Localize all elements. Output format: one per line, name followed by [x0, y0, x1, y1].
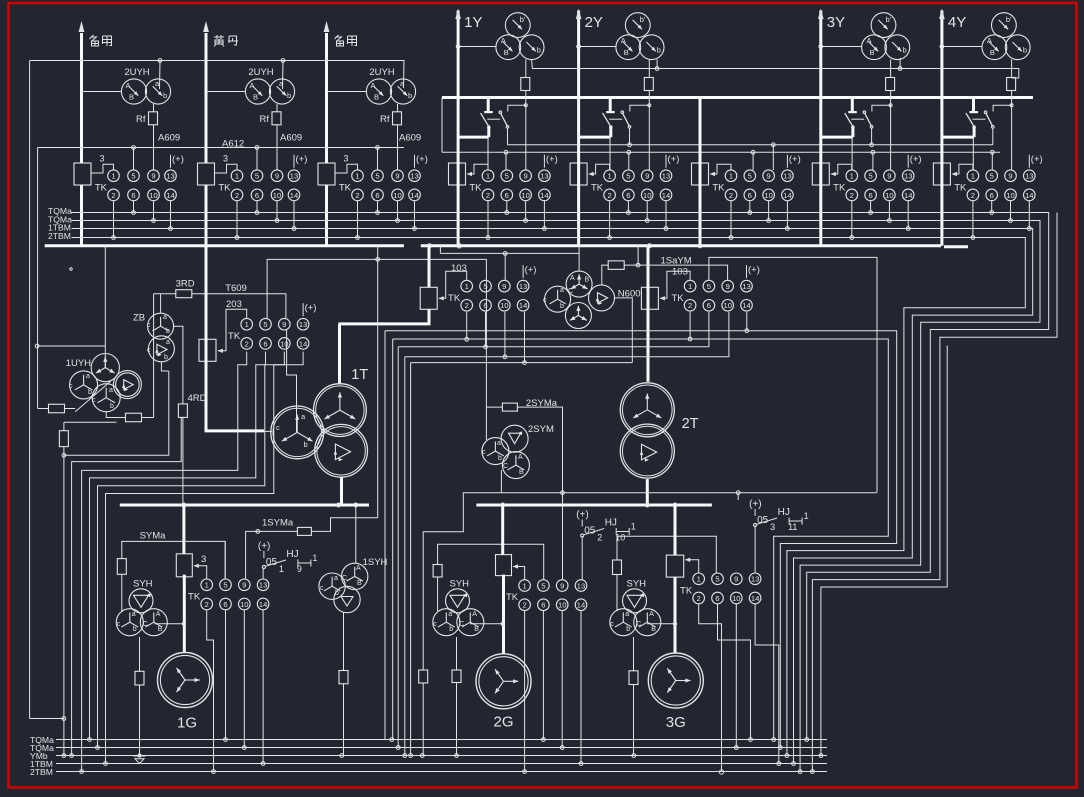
- thick wire y=245.8 left segment: [45, 244, 404, 247]
- thick wire stub: [944, 245, 968, 248]
- svg-text:A: A: [156, 611, 161, 618]
- svg-text:9: 9: [151, 172, 155, 181]
- svg-text:13: 13: [577, 581, 585, 590]
- svg-text:b': b': [1006, 15, 1012, 24]
- incoming feeder line at x=206: [205, 33, 208, 246]
- svg-text:14: 14: [1025, 191, 1033, 200]
- voltage transformer cluster N600: [578, 246, 580, 271]
- bus riser 4Y: [940, 11, 943, 138]
- wire N600 to y=362.6: [615, 298, 633, 363]
- wire ZB bottom to staircase line1: [161, 362, 168, 371]
- svg-text:2Y: 2Y: [585, 14, 603, 31]
- junction dot: [457, 244, 461, 248]
- terminal block TB3: [318, 163, 335, 185]
- wire riser to 2T (thick): [647, 246, 650, 382]
- svg-text:203: 203: [226, 299, 242, 310]
- wire SYH to 1G riser: [155, 623, 184, 625]
- svg-text:b': b': [886, 15, 892, 24]
- fuse 4RD: [178, 404, 187, 418]
- svg-text:14: 14: [259, 600, 267, 609]
- svg-text:9: 9: [560, 581, 564, 590]
- svg-text:b': b': [520, 15, 526, 24]
- svg-text:2: 2: [235, 191, 239, 200]
- svg-text:10: 10: [521, 191, 529, 200]
- svg-text:TK: TK: [506, 592, 519, 603]
- svg-text:10: 10: [280, 339, 288, 348]
- svg-text:2UYH: 2UYH: [248, 67, 273, 78]
- terminal block TB6: [692, 163, 709, 185]
- wire 2TBM (upper) with right return loop: [72, 238, 1026, 756]
- wire 4Y to PT: [942, 46, 982, 48]
- svg-text:14: 14: [410, 191, 418, 200]
- svg-text:3: 3: [201, 554, 206, 565]
- wire c13 riser 1G: [262, 568, 264, 580]
- svg-text:a: a: [448, 611, 452, 618]
- svg-text:3: 3: [770, 522, 775, 532]
- svg-text:1: 1: [111, 172, 115, 181]
- svg-text:2: 2: [205, 600, 209, 609]
- wire vertical x=37.6: [37, 148, 39, 347]
- wire staircase line5: [98, 352, 285, 748]
- svg-text:1G: 1G: [177, 715, 197, 732]
- svg-text:13: 13: [540, 172, 548, 181]
- incoming feeder line at x=326.5: [325, 33, 328, 246]
- stubs TB6 row2 to TQM nets: [730, 201, 732, 238]
- svg-text:5: 5: [541, 581, 545, 590]
- label 备用: [90, 35, 99, 46]
- svg-text:2SYM: 2SYM: [528, 424, 554, 435]
- wire vertical x=440.4: [439, 246, 441, 254]
- voltage transformer PT on 2Y: [625, 13, 650, 38]
- svg-text:6: 6: [255, 191, 259, 200]
- fuse on 1UYH left neutral: [37, 346, 39, 409]
- svg-text:2: 2: [697, 594, 701, 603]
- transformer ZB delta circle: [148, 336, 174, 362]
- svg-text:5: 5: [255, 172, 259, 181]
- svg-text:1: 1: [205, 581, 209, 590]
- svg-text:13: 13: [290, 172, 298, 181]
- svg-text:9: 9: [242, 581, 246, 590]
- fuse on 1SYMa: [297, 527, 311, 535]
- wire 3Y to PT: [821, 46, 862, 48]
- svg-text:2T: 2T: [682, 416, 699, 432]
- wire y=144.8 breaker outputs: [508, 144, 993, 146]
- svg-text:c: c: [276, 423, 280, 432]
- svg-text:1: 1: [850, 172, 854, 181]
- jog wire with 203 label on T609: [218, 309, 247, 351]
- wire outer right return loop: [821, 346, 947, 756]
- voltage transformer 2UYH at feeder x=326.5: [366, 79, 391, 104]
- wire y=152.3 right section: [442, 151, 1000, 153]
- wire 2T to bus (thick): [646, 479, 649, 505]
- terminal block 1G: [176, 554, 192, 577]
- svg-text:2: 2: [688, 301, 692, 310]
- svg-text:(+): (+): [296, 154, 308, 165]
- svg-text:b: b: [304, 440, 308, 449]
- svg-text:13: 13: [1025, 172, 1033, 181]
- svg-text:5: 5: [223, 581, 227, 590]
- svg-text:B: B: [585, 277, 590, 284]
- svg-text:3RD: 3RD: [176, 279, 195, 290]
- svg-text:2: 2: [486, 191, 490, 200]
- svg-text:c: c: [92, 397, 96, 404]
- svg-text:1: 1: [279, 564, 284, 574]
- main top busbar: [442, 96, 1033, 99]
- svg-text:1: 1: [245, 320, 249, 329]
- svg-text:9: 9: [275, 172, 279, 181]
- svg-text:C: C: [503, 463, 508, 470]
- svg-text:05: 05: [266, 557, 278, 568]
- svg-text:b: b: [537, 46, 541, 55]
- svg-text:1: 1: [607, 172, 611, 181]
- fuse on 3G left leg: [613, 560, 622, 575]
- svg-text:14: 14: [783, 191, 791, 200]
- wire 103-B c5 net to right bundle: [709, 257, 877, 492]
- wire c13 riser 3G: [754, 526, 756, 574]
- svg-text:c: c: [543, 297, 547, 304]
- svg-text:13: 13: [742, 282, 750, 291]
- svg-text:1Y: 1Y: [464, 14, 482, 31]
- terminal block TB8: [933, 163, 950, 185]
- svg-text:1: 1: [465, 282, 469, 291]
- wire net 3G c5: [617, 536, 716, 573]
- svg-text:TK: TK: [591, 182, 604, 193]
- svg-text:B: B: [357, 580, 362, 587]
- svg-text:(+): (+): [1031, 154, 1043, 165]
- svg-text:6: 6: [707, 301, 711, 310]
- svg-text:B: B: [253, 93, 258, 102]
- svg-text:3G: 3G: [666, 714, 686, 731]
- svg-text:b: b: [408, 91, 412, 100]
- wire net y=330.7 with right return: [384, 331, 386, 740]
- svg-text:b: b: [164, 354, 168, 361]
- wire huangdan feeder to 1T (thick elbow): [206, 246, 264, 431]
- svg-text:10: 10: [723, 301, 731, 310]
- svg-text:T609: T609: [225, 283, 247, 294]
- svg-text:1: 1: [631, 522, 636, 532]
- node a-circle VT2: [282, 61, 285, 90]
- svg-text:2: 2: [111, 191, 115, 200]
- wire 2Y to PT: [579, 46, 616, 48]
- svg-text:TK: TK: [833, 182, 846, 193]
- svg-text:A: A: [570, 275, 575, 282]
- svg-text:a: a: [334, 575, 338, 582]
- svg-text:(+): (+): [748, 265, 760, 276]
- svg-text:b: b: [449, 626, 453, 633]
- wire staircase line4: [90, 352, 266, 740]
- label 备用: [335, 35, 344, 46]
- bus riser 2Y: [577, 11, 580, 138]
- svg-text:5: 5: [375, 172, 379, 181]
- svg-text:2: 2: [971, 191, 975, 200]
- svg-text:(+): (+): [525, 265, 537, 276]
- svg-text:14: 14: [540, 191, 548, 200]
- bus riser 1Y: [457, 11, 460, 138]
- generator 2G: [476, 654, 531, 709]
- svg-text:(+): (+): [416, 154, 428, 165]
- svg-text:1: 1: [522, 581, 526, 590]
- svg-text:6: 6: [541, 601, 545, 610]
- svg-text:1: 1: [971, 172, 975, 181]
- svg-text:6: 6: [990, 191, 994, 200]
- svg-text:1T: 1T: [351, 367, 368, 383]
- generator 1G: [158, 653, 213, 708]
- stubs TB8 row2 to TQM nets: [972, 201, 974, 238]
- svg-text:Rf: Rf: [136, 114, 146, 125]
- svg-text:b: b: [287, 91, 291, 100]
- svg-text:A: A: [250, 81, 255, 90]
- svg-text:b: b: [166, 328, 170, 335]
- bus riser through TB6 (2T supply): [699, 98, 702, 246]
- svg-text:10: 10: [885, 191, 893, 200]
- svg-text:1UYH: 1UYH: [66, 358, 91, 369]
- svg-text:TK: TK: [671, 293, 684, 304]
- svg-text:(+): (+): [576, 510, 589, 521]
- wire vertical x=153.6 (3RD left): [153, 294, 155, 418]
- svg-text:3: 3: [100, 154, 105, 164]
- svg-text:c: c: [69, 383, 73, 390]
- svg-text:B: B: [158, 626, 163, 633]
- wire SYMa-like net 2G: [438, 544, 544, 579]
- fuse on PT secondary 1Y: [525, 60, 527, 171]
- svg-text:C: C: [568, 288, 573, 295]
- svg-text:5: 5: [707, 282, 711, 291]
- svg-text:6: 6: [131, 191, 135, 200]
- svg-text:9: 9: [887, 172, 891, 181]
- wire horizontal y=147.5 (left section): [38, 147, 404, 149]
- svg-text:(+): (+): [305, 303, 317, 314]
- wire PT b-winding common line y=68.5: [532, 60, 1019, 79]
- bus risers 1Y-4Y down to lower bus: [457, 138, 460, 246]
- svg-text:10: 10: [732, 594, 740, 603]
- drops 1G TB row2 to bottom nets: [207, 610, 214, 771]
- svg-text:a: a: [86, 373, 90, 380]
- svg-text:C: C: [636, 621, 641, 628]
- svg-text:TK: TK: [469, 182, 482, 193]
- svg-text:b: b: [110, 403, 114, 410]
- svg-text:SYH: SYH: [627, 578, 647, 589]
- svg-text:6: 6: [715, 594, 719, 603]
- terminal block 2G: [496, 555, 512, 576]
- svg-text:TK: TK: [228, 331, 241, 342]
- svg-text:a: a: [109, 387, 113, 394]
- terminal block TB4: [449, 163, 466, 185]
- svg-text:2: 2: [607, 191, 611, 200]
- svg-text:5: 5: [483, 282, 487, 291]
- svg-text:13: 13: [519, 282, 527, 291]
- fuse Rf: [276, 104, 278, 170]
- fuse below SYH 3G: [633, 637, 635, 671]
- svg-text:6: 6: [223, 600, 227, 609]
- svg-text:2: 2: [245, 339, 249, 348]
- fuse on 2G left leg: [433, 565, 442, 578]
- wire staircase line2: [72, 418, 182, 756]
- circuit breaker disconnect contact at 852.3: [851, 98, 854, 113]
- svg-text:b: b: [903, 46, 907, 55]
- svg-text:(+): (+): [668, 154, 680, 165]
- svg-text:TK: TK: [954, 182, 967, 193]
- svg-text:9: 9: [726, 282, 730, 291]
- svg-text:1: 1: [312, 553, 317, 563]
- fuse Rf: [153, 104, 155, 170]
- svg-text:2: 2: [850, 191, 854, 200]
- svg-text:9: 9: [645, 172, 649, 181]
- terminal block TB2: [198, 163, 215, 185]
- stubs TB5 row2 to TQM nets: [609, 201, 611, 238]
- svg-text:05: 05: [757, 515, 769, 526]
- wire T609 c5 riser y=259.4: [267, 259, 486, 440]
- fuse on PT secondary 2Y: [648, 60, 650, 171]
- wire to lower fuse: [64, 421, 117, 423]
- svg-text:A: A: [371, 81, 376, 90]
- svg-text:Rf: Rf: [380, 114, 390, 125]
- svg-text:5: 5: [626, 172, 630, 181]
- circuit breaker disconnect contact at 610.2: [609, 98, 612, 113]
- svg-text:(+): (+): [910, 154, 922, 165]
- wire breaker to terminal circle 1: [972, 137, 974, 170]
- svg-text:TK: TK: [188, 592, 201, 603]
- svg-text:A: A: [518, 454, 523, 461]
- svg-text:9: 9: [395, 172, 399, 181]
- wire 1T to generator bus (thick): [340, 477, 343, 505]
- svg-text:b: b: [657, 46, 661, 55]
- wire breaker to terminal circle 1: [609, 137, 611, 170]
- wire feeder to 2UYH: [82, 91, 122, 93]
- svg-text:TK: TK: [448, 293, 461, 304]
- svg-text:9: 9: [297, 564, 302, 574]
- svg-text:10: 10: [764, 191, 772, 200]
- svg-text:B: B: [651, 626, 656, 633]
- wire top-left horizontal y=60: [30, 61, 404, 89]
- svg-text:9: 9: [766, 172, 770, 181]
- terminal block TB7: [812, 163, 829, 185]
- fuse below SYH 2G: [456, 637, 458, 670]
- svg-text:a: a: [166, 339, 170, 346]
- svg-text:13: 13: [904, 172, 912, 181]
- breaker second contact at 992.8: [986, 113, 993, 127]
- bus riser 3Y: [819, 11, 822, 138]
- svg-text:A609: A609: [280, 133, 302, 144]
- svg-text:c: c: [147, 347, 151, 354]
- stub 1G c5 riser: [224, 541, 226, 579]
- svg-text:c: c: [433, 621, 437, 628]
- svg-text:b: b: [498, 455, 502, 462]
- svg-text:13: 13: [259, 581, 267, 590]
- terminal block 2G supply (thick riser): [501, 505, 504, 555]
- svg-text:4RD: 4RD: [188, 393, 207, 404]
- svg-text:A: A: [356, 565, 361, 572]
- svg-text:10: 10: [500, 301, 508, 310]
- fuse vertical left: [59, 431, 68, 447]
- svg-text:10: 10: [393, 191, 401, 200]
- svg-text:1: 1: [355, 172, 359, 181]
- svg-text:13: 13: [410, 172, 418, 181]
- wire SYH to 3G riser: [647, 623, 675, 625]
- wire 2SYM staircase to 2G section: [423, 470, 501, 670]
- stubs TB7 row2 to TQM nets: [851, 201, 853, 238]
- svg-text:B: B: [519, 469, 524, 476]
- ground symbol: [134, 755, 146, 757]
- wire long net y=492.7: [501, 492, 877, 494]
- svg-text:6: 6: [263, 339, 267, 348]
- svg-text:A: A: [126, 81, 131, 90]
- breaker second contact at 629.5: [622, 113, 629, 127]
- svg-text:103: 103: [672, 267, 688, 278]
- terminal block T609: [199, 339, 216, 361]
- svg-text:3Y: 3Y: [827, 14, 845, 31]
- fuse on PT secondary 4Y: [1011, 60, 1013, 171]
- svg-text:5: 5: [748, 172, 752, 181]
- svg-text:6: 6: [626, 191, 630, 200]
- stubs TB3 row2 to TQM nets: [357, 201, 359, 238]
- wire extra right return loop: [812, 213, 1057, 772]
- drops 3G TB row2 to bottom nets: [699, 604, 722, 772]
- wire left end drop of top busbar: [441, 98, 443, 153]
- svg-text:2TBM: 2TBM: [48, 231, 71, 241]
- svg-text:(+): (+): [546, 154, 558, 165]
- generator bus 1 (thick): [120, 504, 369, 507]
- drops 2G TB row2 to bottom nets: [524, 611, 526, 772]
- svg-text:13: 13: [299, 320, 307, 329]
- svg-text:5: 5: [131, 172, 135, 181]
- wire vertical x=377.7 with node: [377, 246, 379, 518]
- thick wire y=245.8 right segment: [421, 244, 941, 247]
- svg-text:c: c: [147, 322, 151, 329]
- svg-text:b: b: [163, 91, 167, 100]
- svg-text:3: 3: [223, 154, 228, 164]
- svg-text:13: 13: [783, 172, 791, 181]
- incoming feeder line at x=81.5: [80, 33, 83, 246]
- svg-text:2UYH: 2UYH: [124, 67, 149, 78]
- svg-text:C: C: [143, 621, 148, 628]
- wire 1TBM bottom net: [56, 763, 827, 765]
- terminal block 3G: [666, 555, 683, 577]
- wire SYH to 2G riser: [470, 623, 503, 625]
- svg-text:SYH: SYH: [450, 578, 470, 589]
- svg-text:6: 6: [748, 191, 752, 200]
- circuit breaker disconnect contact at 488.2: [487, 98, 490, 113]
- svg-text:14: 14: [577, 601, 585, 610]
- svg-text:b: b: [1023, 46, 1027, 55]
- svg-text:10: 10: [240, 600, 248, 609]
- svg-text:5: 5: [868, 172, 872, 181]
- svg-text:1: 1: [688, 282, 692, 291]
- wire ZB right output to 4RD: [174, 326, 183, 505]
- svg-text:9: 9: [523, 172, 527, 181]
- generator 3G: [648, 653, 703, 708]
- svg-text:6: 6: [483, 301, 487, 310]
- voltage transformer PT on 4Y: [992, 13, 1017, 38]
- svg-text:ZB: ZB: [133, 313, 145, 324]
- wire 1Y to PT: [458, 46, 496, 48]
- wire 2TBM bottom net: [56, 771, 827, 773]
- svg-text:6: 6: [868, 191, 872, 200]
- wire y=346 to 1UYH: [37, 345, 105, 347]
- svg-text:14: 14: [290, 191, 298, 200]
- svg-text:(+): (+): [749, 499, 762, 510]
- svg-text:A: A: [472, 611, 477, 618]
- svg-text:13: 13: [751, 575, 759, 584]
- wire T609 to circle9: [225, 294, 286, 319]
- svg-text:1SYH: 1SYH: [363, 557, 388, 568]
- wire YMb bottom net: [56, 755, 827, 757]
- svg-text:14: 14: [904, 191, 912, 200]
- svg-text:2: 2: [465, 301, 469, 310]
- svg-text:B: B: [129, 93, 134, 102]
- svg-text:TK: TK: [680, 586, 693, 597]
- svg-text:9: 9: [734, 575, 738, 584]
- wire staircase line1: [64, 371, 169, 455]
